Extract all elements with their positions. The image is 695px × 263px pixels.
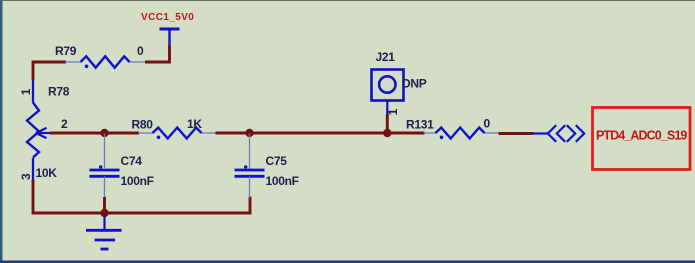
svg-text:PTD4_ADC0_S19: PTD4_ADC0_S19 — [596, 129, 687, 143]
svg-text:2: 2 — [61, 117, 68, 131]
wire wiper to node A — [50, 132, 106, 135]
wire node B to node C — [250, 132, 389, 135]
ground junction dot — [100, 209, 108, 217]
capacitor C75 top lead — [249, 133, 251, 169]
capacitor C75 plates — [235, 170, 265, 176]
window edge top — [0, 0, 695, 1]
svg-text:VCC1_5V0: VCC1_5V0 — [141, 12, 194, 23]
potentiometer R78 top lead — [32, 80, 34, 103]
svg-text:R79: R79 — [55, 44, 77, 58]
svg-text:3: 3 — [19, 173, 33, 180]
svg-text:10K: 10K — [36, 166, 58, 180]
svg-text:100nF: 100nF — [121, 174, 154, 188]
capacitor C75 bottom lead — [249, 176, 251, 198]
capacitor C74 pin1 dot — [99, 165, 102, 168]
resistor R131 pin1 dot — [440, 136, 444, 140]
wire node A to R80 pin1 — [105, 132, 140, 135]
connector J21 pin 1 lead — [386, 101, 388, 116]
resistor R80 leads — [138, 132, 217, 134]
svg-text:C75: C75 — [266, 154, 288, 168]
node A junction dot — [100, 129, 108, 137]
wire C74 to ground rail — [103, 197, 106, 213]
power port VCC1_5V0 bar symbol — [160, 29, 180, 46]
connector J21 body square — [372, 70, 404, 101]
node B junction dot — [245, 129, 253, 137]
potentiometer R78 bottom lead — [32, 158, 34, 181]
net label box PTD4_ADC0_S19 — [593, 108, 691, 170]
resistor R131 body — [436, 128, 485, 139]
svg-text:J21: J21 — [376, 50, 396, 64]
capacitor C74 plates — [90, 170, 120, 176]
capacitor C74 bottom lead — [104, 176, 106, 200]
resistor R131 leads — [424, 132, 500, 134]
node C junction dot — [383, 129, 391, 137]
svg-text:100nF: 100nF — [266, 174, 299, 188]
wire R80 pin2 to node B — [216, 132, 252, 135]
capacitor C74 top lead — [104, 133, 106, 168]
svg-text:0: 0 — [137, 44, 144, 58]
connector J21 pin circle — [379, 76, 395, 92]
resistor R79 leads — [65, 61, 145, 63]
potentiometer R78 body — [27, 103, 39, 158]
svg-text:1: 1 — [19, 88, 33, 95]
resistor R79 body — [81, 56, 130, 67]
resistor R79 pin1 dot — [85, 65, 89, 69]
wire R131 pin2 to port — [499, 132, 534, 135]
ground symbol — [86, 216, 122, 249]
wire node C to R131 pin1 — [387, 132, 424, 135]
svg-text:R78: R78 — [48, 85, 70, 99]
svg-text:R131: R131 — [406, 118, 434, 132]
svg-text:R80: R80 — [132, 118, 154, 132]
capacitor C75 pin1 dot — [244, 165, 247, 168]
window edge left — [0, 0, 3, 263]
svg-text:DNP: DNP — [402, 77, 427, 91]
resistor R80 body — [153, 128, 202, 139]
wire bottom rail from pot to C75 — [33, 180, 250, 213]
wire VCC stem down and over to R79 pin2 — [145, 45, 171, 62]
wire J21 to node C — [386, 114, 389, 133]
off-sheet connector chevrons — [548, 125, 584, 142]
svg-text:0: 0 — [484, 117, 491, 131]
potentiometer R78 wiper arrow pin2 — [36, 128, 52, 138]
wire R79 pin1 to pot top — [33, 61, 66, 80]
svg-text:C74: C74 — [121, 154, 143, 168]
resistor R80 pin1 dot — [157, 136, 161, 140]
window edge bottom — [0, 261, 695, 263]
wire port lead blue — [533, 132, 549, 134]
svg-text:1K: 1K — [187, 117, 202, 131]
